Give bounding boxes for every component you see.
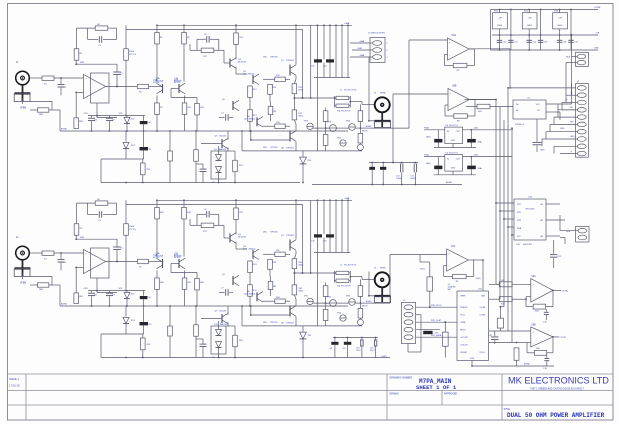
transistor Q8 output (ch2)	[281, 306, 296, 325]
transistor Q1A (ch1)	[153, 79, 163, 94]
transistor Q8 output (ch1)	[281, 131, 296, 150]
wire R5 to pair (ch1)	[149, 86, 163, 88]
svg-text:-: -	[533, 298, 534, 301]
label Q7b value	[263, 232, 278, 234]
capacitor C42	[488, 331, 499, 344]
resistor R89 (ch1)	[74, 92, 84, 128]
ic U4 reference	[445, 153, 463, 172]
capacitor C11 (ch1)	[196, 164, 207, 183]
svg-text:PIC.1%: PIC.1%	[129, 229, 136, 231]
ground rail op-amp (ch2)	[60, 303, 348, 307]
capacitor C7 (ch1)	[219, 113, 233, 121]
svg-text:+VE: +VE	[595, 33, 600, 35]
resistor R25 (ch2)	[194, 306, 199, 358]
capacitor C20 decoupling (ch2)	[311, 234, 322, 242]
diode network D3 D4 (ch2)	[211, 321, 226, 359]
capacitor C9 (ch1)	[106, 116, 116, 132]
resistor R10 (ch1)	[124, 49, 136, 61]
wire U7A input	[420, 254, 447, 256]
wire U10 pins right	[546, 204, 565, 236]
resistor R47	[497, 307, 503, 331]
wire collector boost (ch1)	[310, 25, 312, 99]
wire ch2 mute to U7A	[371, 255, 420, 304]
svg-text:OUTB: OUTB	[560, 337, 567, 339]
resistor R23 (ch1)	[226, 151, 237, 183]
label out2	[374, 268, 386, 270]
wire collector boost (ch2)	[310, 200, 312, 274]
svg-text:BD107A: BD107A	[238, 61, 246, 64]
supply bus vertical 1 (ch2)	[316, 200, 318, 326]
svg-text:470U: 470U	[370, 350, 375, 352]
svg-text:SPKB: SPKB	[380, 268, 386, 270]
wire bus to U10 c	[503, 218, 514, 220]
resistor R24 (ch1)	[168, 131, 173, 183]
svg-text:RLB: RLB	[566, 57, 571, 59]
resistor R88 (ch2)	[38, 283, 49, 291]
svg-text:OUTB: OUTB	[479, 315, 485, 317]
capacitor C18 reservoir	[356, 338, 363, 358]
resistor R31 (ch2)	[323, 296, 328, 326]
ic U11 controller	[457, 289, 489, 361]
capacitor C40	[543, 309, 549, 324]
svg-text:GND: GND	[570, 136, 575, 138]
drawing number label	[390, 377, 413, 380]
wire mute feed (ch2)	[366, 272, 374, 304]
svg-text:100U: 100U	[356, 350, 361, 352]
title label	[504, 408, 511, 411]
resistor R20 (ch1)	[268, 102, 273, 122]
resistor R88 (ch1)	[38, 108, 49, 116]
svg-text:U6A: U6A	[452, 34, 457, 37]
resistor R15 (ch2)	[263, 252, 290, 256]
wire R10 (ch1)	[125, 25, 127, 115]
wire op-amp bottom stub (ch2)	[97, 278, 117, 293]
rail GND psu	[491, 48, 600, 51]
capacitor C10 electrolytic (ch2)	[140, 291, 152, 307]
label R11a	[160, 37, 163, 39]
wire op-amp output (ch1)	[106, 86, 138, 88]
svg-text:C1K: C1K	[543, 322, 548, 324]
label out1	[374, 92, 386, 95]
resistor feedback U6B	[454, 114, 468, 123]
power rail -V (ch2)	[101, 356, 390, 358]
resistor R4 (ch1)	[95, 24, 108, 30]
title band line 1	[8, 373, 614, 375]
ground bar input (ch2)	[14, 268, 30, 276]
label Q4b value	[243, 249, 256, 251]
wire ground to vfb (ch2)	[30, 276, 52, 285]
svg-text:+VAA: +VAA	[344, 197, 350, 200]
op-amp U1 (ch1)	[84, 73, 110, 103]
wire inverting input (ch1)	[76, 91, 83, 93]
company box divider	[501, 374, 503, 420]
capacitor C17 reservoir	[342, 338, 351, 358]
svg-text:TITLE: TITLE	[504, 408, 511, 411]
resistor R13 (ch2)	[248, 261, 253, 273]
drawn label	[390, 393, 399, 396]
svg-text:C2P: C2P	[558, 256, 563, 258]
resistor R33 (ch1)	[358, 121, 363, 143]
resistor R18 (ch1)	[263, 124, 290, 128]
transistor Q6 (ch2)	[247, 291, 263, 302]
svg-text:VR11: VR11	[420, 269, 426, 271]
wire U3 ground tie	[434, 143, 476, 148]
svg-text:REG: REG	[498, 25, 503, 27]
wire decoupling row (ch2)	[83, 288, 145, 293]
resistor R43	[499, 297, 512, 306]
op-amp U9B	[531, 324, 553, 347]
wire output node (ch1)	[294, 25, 335, 151]
trimmer VR11	[420, 262, 433, 308]
svg-text:RCLK: RCLK	[480, 352, 486, 354]
wire RG2 bottom	[528, 29, 530, 51]
capacitor C6 (ch1)	[197, 34, 219, 50]
transistor Q7 output (ch1)	[281, 60, 296, 76]
wire op-amp bottom stub (ch1)	[97, 103, 117, 118]
resistor R2 (ch1)	[74, 49, 83, 61]
svg-text:C32: C32	[533, 41, 536, 43]
wire Q3 emitter (ch2)	[236, 242, 247, 249]
resistor R89 (ch2)	[74, 267, 84, 303]
wire VFB (ch2)	[76, 235, 117, 239]
title band line 2	[8, 390, 614, 392]
power rail 2 (ch2)	[126, 203, 303, 205]
resistor R7 (ch1)	[201, 48, 214, 58]
resistor R30 (ch1)	[323, 108, 328, 122]
transistor Q5 (ch2)	[222, 274, 239, 286]
resistor R2 (ch2)	[74, 224, 83, 236]
svg-text:TIP3055: TIP3055	[270, 57, 278, 59]
resistor R23 (ch2)	[226, 326, 237, 358]
wire R7 to Q base (ch2)	[190, 219, 230, 238]
svg-text:+VE: +VE	[527, 18, 532, 20]
svg-text:2N5401: 2N5401	[249, 294, 257, 296]
wire bus to U10 e	[511, 234, 514, 236]
node VFBB (ch1)	[20, 108, 38, 111]
transistor Q9 bias (ch2)	[201, 306, 228, 326]
resistor R7 (ch2)	[201, 223, 214, 233]
svg-text:OUTA: OUTA	[480, 306, 486, 309]
resistor R4 (ch2)	[95, 199, 108, 205]
svg-text:TIP2955: TIP2955	[286, 323, 295, 325]
resistor R33 (ch2)	[358, 296, 363, 318]
connector J2	[576, 81, 589, 157]
approved label	[444, 393, 458, 396]
label U5 name	[515, 124, 525, 126]
node VFBB (ch2)	[20, 283, 38, 286]
label R11ab2	[187, 212, 192, 214]
svg-text:+VPL: +VPL	[83, 288, 89, 290]
svg-text:IN-: IN-	[516, 110, 519, 112]
wire U9B inputs	[489, 331, 531, 343]
wire U9B feedback	[527, 337, 553, 353]
wire J5 pin2 down	[408, 315, 421, 352]
capacitor C12 reservoir	[369, 163, 375, 185]
trimmer VR4 (ch1)	[337, 138, 346, 147]
rail +VE	[492, 33, 600, 36]
capacitor C15 reservoir	[410, 163, 417, 185]
trimmer VR3 (ch2)	[346, 296, 355, 306]
wire R88 to ground rail (ch1)	[49, 110, 60, 131]
drawing number text	[416, 378, 457, 391]
svg-text:RRCV: RRCV	[460, 330, 466, 332]
transistor Q7 output (ch2)	[281, 235, 296, 251]
wire feedback U7A	[444, 260, 474, 277]
wire bias lower rail (ch1)	[242, 131, 325, 151]
svg-text:BC546A: BC546A	[156, 254, 164, 257]
resistor R21 emitter (ch2)	[292, 251, 297, 277]
resistor R11 collector (ch2)	[234, 200, 239, 234]
trimmer VR5 (ch1)	[357, 143, 363, 151]
capacitor C46 electrolytic	[467, 157, 483, 170]
wire trimmer gnd (ch1)	[325, 150, 362, 152]
resistor R46 feedback	[534, 348, 546, 355]
wire bus to U10 b	[499, 210, 514, 212]
resistor R6 collector (ch2)	[155, 200, 160, 256]
svg-text:ISSUE 1: ISSUE 1	[9, 377, 20, 381]
svg-text:PS2801-4: PS2801-4	[515, 124, 525, 126]
svg-text:2N5551: 2N5551	[248, 74, 256, 76]
svg-text:-: -	[450, 105, 451, 108]
svg-text:C31: C31	[514, 41, 517, 43]
rail +PWR	[491, 7, 601, 10]
svg-text:AGND: AGND	[446, 181, 453, 184]
bus wire 2	[498, 107, 501, 300]
svg-text:TIP3055: TIP3055	[286, 60, 295, 62]
label R9t	[160, 107, 205, 109]
resistor R30 (ch2)	[323, 283, 328, 297]
op-amp U2 (ch2)	[84, 248, 110, 278]
svg-text:U9B: U9B	[531, 324, 536, 326]
wire feedback U6B	[445, 100, 475, 117]
wire psu left	[490, 10, 492, 51]
svg-text:3: 3	[387, 57, 388, 59]
svg-text:-: -	[85, 91, 86, 95]
diode network D3 D4 (ch1)	[211, 146, 226, 184]
label R14b value	[253, 290, 258, 292]
svg-text:SUBSID: SUBSID	[460, 307, 468, 309]
svg-text:VDB: VDB	[481, 296, 486, 298]
wire input to ground (ch2)	[22, 260, 24, 277]
capacitor C10 electrolytic (ch1)	[140, 116, 152, 132]
connector J1	[368, 33, 386, 63]
wire Q3 emitter (ch1)	[236, 67, 247, 74]
svg-text:MUTE: MUTE	[362, 306, 368, 308]
wire U9A feedback	[526, 290, 553, 306]
power rail +V (ch2)	[157, 197, 352, 201]
ground rail mid	[312, 181, 462, 185]
transistor Q3 (ch2)	[230, 233, 246, 243]
resistor R16 (ch2)	[171, 273, 199, 307]
transistor Q2B (ch2)	[174, 255, 185, 269]
wire Q8 base feed (ch2)	[250, 306, 290, 316]
supply bus vertical 3 (ch1)	[335, 25, 337, 77]
svg-text:C62: C62	[342, 348, 345, 350]
resistor R18 (ch2)	[263, 299, 290, 303]
capacitor C41	[543, 355, 549, 370]
capacitor C9 (ch2)	[106, 291, 116, 307]
resistor R22 emitter (ch2)	[292, 277, 297, 306]
wire reservoir feed	[392, 94, 394, 163]
label R11ab	[187, 37, 190, 39]
svg-text:UNIT 1 GREENLAND CASTLE DOUGLA: UNIT 1 GREENLAND CASTLE DOUGLAS IOM D17	[530, 387, 584, 390]
wire bias lower rail (ch2)	[242, 306, 325, 326]
connector J output (ch2)	[375, 272, 390, 287]
ground bar input (ch1)	[14, 93, 30, 101]
wire trimmer gnd (ch2)	[325, 325, 362, 327]
wire pair emitters (ch1)	[157, 89, 185, 104]
transistor Q2A (ch2)	[153, 254, 163, 269]
op-amp U7A	[447, 245, 469, 271]
svg-text:PVB2: PVB2	[424, 154, 430, 156]
supply bus vertical 4 (ch2)	[341, 200, 343, 252]
transistor Q4 (ch2)	[243, 246, 259, 260]
svg-text:J1 PWR.01.KPM.1: J1 PWR.01.KPM.1	[368, 33, 386, 35]
wire R1 to op-amp (ch2)	[54, 252, 84, 254]
trimmer VR5 (ch2)	[357, 318, 363, 326]
svg-text:VO: VO	[537, 110, 540, 112]
ground rail right	[500, 363, 554, 367]
label R22 value	[299, 113, 305, 118]
bus wire 3	[500, 120, 504, 307]
power rail 2 (ch1)	[126, 28, 303, 30]
svg-text:2: 2	[387, 50, 388, 52]
wire +VAA2 row	[424, 127, 513, 130]
svg-text:VREF: VREF	[460, 296, 466, 298]
resistor R26 (ch2)	[141, 334, 152, 358]
label R18b value	[276, 297, 281, 299]
wire U9A output	[553, 289, 568, 292]
capacitor C2 (ch1)	[58, 78, 68, 95]
svg-text:SHEET 1 OF 1: SHEET 1 OF 1	[416, 384, 457, 391]
svg-text:10U: 10U	[435, 333, 439, 335]
regulator RG3	[553, 13, 568, 29]
svg-text:DRAWN: DRAWN	[390, 393, 399, 396]
label reg1	[494, 11, 559, 13]
drawn/approved divider	[441, 391, 443, 406]
transistor Q4 (ch1)	[243, 71, 259, 85]
svg-text:+PWR: +PWR	[594, 7, 601, 9]
wire J3 pins	[566, 34, 577, 63]
resistor R13 (ch1)	[248, 86, 253, 98]
svg-text:+VEQ: +VEQ	[475, 278, 481, 280]
svg-text:BC546A: BC546A	[156, 79, 164, 82]
power rail -V (ch1)	[101, 182, 300, 184]
capacitor C5 (ch2)	[113, 239, 123, 261]
wire cascode feed (ch2)	[302, 204, 304, 274]
capacitor C30 electrolytic (ch1)	[140, 131, 153, 159]
wire U5 pins right	[546, 104, 572, 120]
svg-text:+VAA: +VAA	[344, 22, 350, 25]
wire output to connector (ch2)	[350, 277, 375, 280]
trimmer VR1 (ch2)	[304, 296, 313, 305]
svg-text:-: -	[85, 266, 86, 270]
svg-text:GND: GND	[560, 128, 565, 130]
svg-text:TIP2955: TIP2955	[270, 322, 278, 324]
capacitor C6 (ch2)	[197, 209, 219, 225]
capacitor C19 reservoir	[370, 338, 377, 358]
wire R1 to op-amp (ch1)	[54, 77, 84, 79]
wire bus to U10 a	[495, 202, 514, 204]
svg-text:BC546: BC546	[220, 136, 227, 138]
wire +VBA row	[424, 154, 512, 156]
capacitor C3 (ch2)	[88, 203, 117, 222]
bus wire 4	[507, 87, 509, 331]
connector J5	[401, 300, 415, 344]
inductor L1 parallel resistor (ch1)	[335, 90, 357, 113]
svg-text:SPK_DLAT: SPK_DLAT	[431, 319, 442, 322]
svg-text:TIP3055: TIP3055	[270, 232, 278, 234]
wire RG1 bottom	[499, 29, 501, 51]
svg-text:AGND: AGND	[61, 303, 68, 306]
supply bus vertical 1 (ch1)	[316, 25, 318, 151]
svg-text:TIP2955: TIP2955	[270, 147, 278, 149]
wire feedback U6A	[445, 49, 475, 66]
supply bus vertical 2 (ch2)	[323, 200, 325, 252]
resistor R14 (ch1)	[248, 98, 253, 132]
capacitor C31 psu	[508, 9, 518, 50]
zener D6 (ch1)	[123, 131, 136, 159]
wire J5 signal 3	[416, 334, 457, 337]
supply bus vertical 3 (ch2)	[335, 200, 337, 252]
op-amp U6B	[448, 86, 470, 111]
resistor R8 collector (ch1)	[182, 25, 187, 81]
resistor R1 (ch2)	[42, 251, 54, 261]
resistor R5 (ch1)	[138, 84, 149, 93]
svg-text:1000U: 1000U	[410, 178, 416, 180]
wire C2 gnd (ch2)	[22, 273, 24, 279]
label R14 value	[253, 115, 258, 117]
wire U4 ground tie	[434, 169, 476, 175]
svg-text:GND: GND	[540, 150, 545, 152]
trimmer VR3 (ch1)	[346, 121, 355, 131]
svg-text:C35: C35	[574, 41, 577, 43]
supply bus vertical 5 (ch1)	[347, 25, 349, 77]
capacitor C11 (ch2)	[196, 339, 207, 358]
resistor R22 emitter (ch1)	[292, 102, 297, 131]
svg-text:LGND: LGND	[381, 356, 387, 358]
svg-text:+VAA: +VAA	[359, 40, 365, 43]
issue column divider	[25, 374, 27, 420]
resistor R14 (ch2)	[248, 273, 253, 307]
svg-text:GND: GND	[594, 48, 599, 50]
wire R4 to C5 branch (ch1)	[108, 28, 117, 39]
wire U9A inputs	[489, 284, 531, 299]
wire lower feed (ch1)	[101, 159, 144, 183]
svg-text:-7/MB: -7/MB	[460, 322, 466, 324]
wire U7A output	[473, 260, 483, 291]
svg-text:-: -	[448, 266, 449, 269]
capacitor C8 (ch2)	[88, 291, 98, 307]
label J2 pins	[570, 93, 575, 153]
svg-text:-: -	[449, 55, 450, 58]
label R18 value	[276, 122, 281, 124]
resistor R31 (ch1)	[323, 121, 328, 150]
label U10 name	[516, 244, 533, 246]
wire U11 vss	[472, 361, 500, 367]
label R20b value	[273, 286, 278, 288]
wire ch2 reservoir top	[333, 337, 378, 339]
wire R2 top loop (ch2)	[77, 203, 96, 224]
trimmer VR2 (ch2)	[327, 297, 336, 307]
capacitor C48 electrolytic	[416, 330, 440, 335]
label R20 value	[273, 111, 278, 113]
svg-text:BC546A: BC546A	[174, 254, 182, 257]
capacitor C14 reservoir	[396, 163, 403, 185]
wire cascode feed (ch1)	[302, 29, 304, 99]
svg-text:BAV199: BAV199	[219, 148, 227, 151]
capacitor C30 electrolytic (ch2)	[140, 306, 153, 334]
